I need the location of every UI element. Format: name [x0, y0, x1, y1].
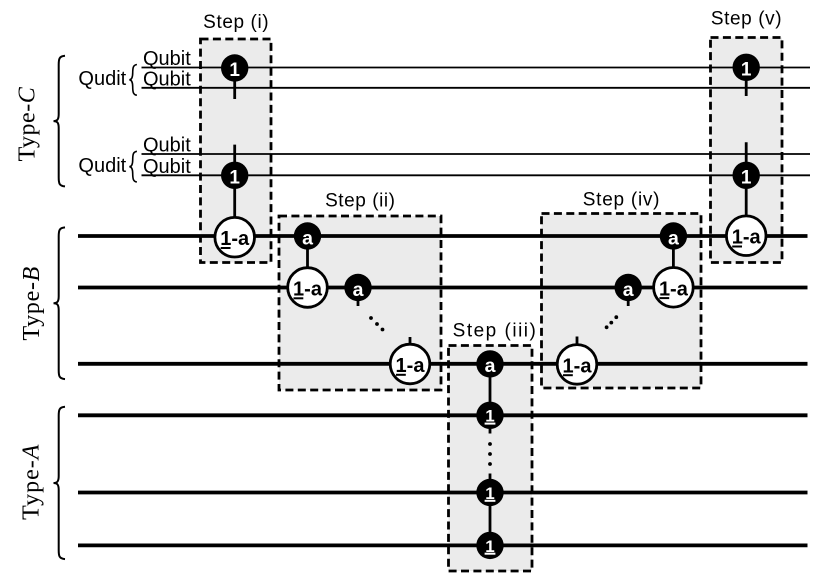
svg-text:Step (i): Step (i)	[203, 12, 269, 33]
svg-text:1-a: 1-a	[732, 227, 762, 249]
svg-text:Type-A: Type-A	[18, 444, 44, 520]
svg-text:a: a	[668, 227, 679, 249]
svg-text:1: 1	[741, 59, 752, 80]
svg-text:Qubit: Qubit	[143, 156, 191, 178]
svg-text:1: 1	[229, 60, 240, 81]
svg-text:Type-B: Type-B	[19, 266, 45, 341]
svg-text:1: 1	[741, 167, 752, 188]
svg-text:Qubit: Qubit	[143, 48, 191, 70]
svg-text:1-a: 1-a	[220, 228, 250, 250]
svg-text:Qudit: Qudit	[78, 68, 126, 90]
svg-text:Qubit: Qubit	[143, 68, 191, 90]
svg-text:Type-C: Type-C	[14, 86, 40, 161]
svg-text:a: a	[302, 227, 313, 249]
svg-text:1-a: 1-a	[293, 279, 323, 301]
svg-text:a: a	[623, 279, 634, 301]
svg-text:a: a	[485, 355, 496, 377]
svg-text:1-a: 1-a	[396, 355, 426, 377]
svg-text:Step (ii): Step (ii)	[325, 191, 395, 212]
svg-text:a: a	[353, 279, 364, 301]
svg-text:1-a: 1-a	[563, 355, 593, 377]
svg-text:1-a: 1-a	[659, 278, 689, 300]
svg-text:Step (iv): Step (iv)	[583, 190, 661, 211]
svg-text:Qudit: Qudit	[78, 155, 126, 177]
svg-text:Step (iii): Step (iii)	[453, 321, 538, 342]
svg-text:1: 1	[229, 167, 240, 188]
svg-text:Step (v): Step (v)	[711, 9, 782, 30]
svg-text:Qubit: Qubit	[143, 135, 191, 157]
